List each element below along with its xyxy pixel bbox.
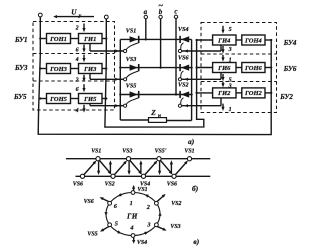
block ГИ1 xyxy=(79,34,103,44)
svg-text:VS6: VS6 xyxy=(73,182,83,188)
pin number 1 with arrow (right chain) xyxy=(221,104,231,113)
block ГИ4 xyxy=(213,35,236,45)
pulse arrow down xyxy=(128,161,131,175)
pin number 2 with arrow (left chain) xyxy=(75,24,86,33)
label VS5 xyxy=(126,84,137,90)
wire ГИ4 output to right GI bus xyxy=(197,39,213,41)
svg-text:БУ2: БУ2 xyxy=(279,93,293,101)
label VS3 xyxy=(126,57,137,63)
label VS3 (ring output) xyxy=(170,224,180,230)
svg-text:БУ1: БУ1 xyxy=(14,36,28,44)
ring position number 1 xyxy=(130,200,133,207)
svg-text:VS1: VS1 xyxy=(137,187,147,193)
label VS4 (ring output) xyxy=(137,240,147,246)
svg-text:ГИ: ГИ xyxy=(126,213,138,221)
pin number 6 with arrow (left chain) xyxy=(76,84,86,93)
svg-text:н: н xyxy=(158,113,161,119)
pin number 3 with arrow (right chain) xyxy=(221,82,231,90)
thyristor VS1 xyxy=(130,36,139,43)
svg-text:3: 3 xyxy=(228,47,232,53)
wire phase c down to row 3 xyxy=(175,19,177,95)
wire row 1 horizontal xyxy=(120,38,191,40)
wire ГИ3 output to sync bus xyxy=(102,68,106,70)
pulse transfer arrow VS4 to VS5 xyxy=(145,161,157,175)
pulse arrow down xyxy=(97,161,100,175)
svg-text:VS1: VS1 xyxy=(184,149,194,155)
output arrow VS5 from ring position 5 xyxy=(100,226,109,231)
svg-text:5: 5 xyxy=(229,27,232,33)
pin number 2 with arrow (left chain) xyxy=(75,75,86,84)
wire ГИ1 output to sync bus xyxy=(102,38,106,40)
block ГИ5 xyxy=(79,94,103,104)
svg-text:1: 1 xyxy=(229,57,232,63)
wire ГОН6 to ГИ6 xyxy=(236,67,242,69)
svg-text:ГОН4: ГОН4 xyxy=(244,37,263,44)
wire U_y bus to ГОН5 input xyxy=(40,98,46,100)
svg-text:2: 2 xyxy=(146,204,150,211)
label VS2 bottom xyxy=(105,182,115,188)
pulse transfer arrow VS3 to VS4 xyxy=(130,160,142,174)
pulse diagram bottom rail xyxy=(76,175,211,177)
svg-text:ГИ5: ГИ5 xyxy=(83,96,97,103)
svg-text:5: 5 xyxy=(229,77,232,83)
svg-text:VS6: VS6 xyxy=(178,55,189,61)
wire ГОН5 to ГИ5 xyxy=(71,98,79,100)
pin number 1 with arrow (right chain) xyxy=(221,55,231,63)
wire U_y bus to ГОН1 input xyxy=(40,38,46,40)
terminal phase c xyxy=(174,8,177,19)
pin number 5 with arrow (right chain) xyxy=(221,74,231,83)
wire ГИ2 output to right GI bus xyxy=(197,92,213,94)
pulse arrow up xyxy=(170,160,173,174)
label VS6 (ring output) xyxy=(84,199,94,205)
label VS6 xyxy=(178,55,189,61)
ring rotation arrowhead xyxy=(144,232,148,235)
pin number 4 with arrow (left chain) xyxy=(75,105,86,114)
svg-text:6: 6 xyxy=(76,87,79,93)
label VS2 xyxy=(178,82,189,88)
svg-text:2: 2 xyxy=(75,26,79,32)
node dots right anode bus xyxy=(190,66,192,95)
svg-text:VS1: VS1 xyxy=(126,29,137,35)
svg-text:VS1: VS1 xyxy=(91,149,101,155)
svg-text:1: 1 xyxy=(229,107,232,113)
output arrow VS4 from ring position 4 xyxy=(132,238,135,244)
node VS1 (top rail) xyxy=(187,157,191,161)
pulse transfer arrow VS5 to VS6 xyxy=(160,160,172,174)
label БУ6 xyxy=(283,65,297,73)
ring rotation arrowhead xyxy=(117,230,121,233)
gate lead VS5 (pulse transformer coupling) xyxy=(124,98,139,107)
pulse diagram top rail xyxy=(66,158,210,160)
svg-text:БУ3: БУ3 xyxy=(14,64,28,72)
label v) xyxy=(193,237,199,246)
ring node 6 xyxy=(108,201,112,205)
svg-text:ГИ3: ГИ3 xyxy=(83,66,97,73)
svg-text:5: 5 xyxy=(115,221,118,228)
wire row 2 horizontal xyxy=(120,67,191,69)
wire right bus to ГОН6 input xyxy=(265,67,271,69)
node dots U_y bus at GON1,GON3,GON5 inputs xyxy=(39,37,41,99)
svg-text:VS2: VS2 xyxy=(178,82,189,88)
block ГИ2 xyxy=(213,88,236,98)
svg-text:4: 4 xyxy=(75,57,79,63)
svg-text:3: 3 xyxy=(228,84,232,90)
wire ГОН2 to ГИ2 xyxy=(236,92,242,94)
wire phase a down to row 1 xyxy=(145,19,147,40)
label VS6 bottom xyxy=(73,182,83,188)
wire right bus to ГОН4 input xyxy=(265,39,271,41)
svg-text:6: 6 xyxy=(76,48,79,54)
pulse transfer arrow VS2 to VS3 xyxy=(114,161,126,175)
svg-text:VS5: VS5 xyxy=(126,84,137,90)
terminal U_y left xyxy=(38,13,42,17)
label VS6 bottom xyxy=(167,182,177,188)
thyristor VS6 xyxy=(180,64,189,71)
svg-text:VS4: VS4 xyxy=(178,27,189,33)
node dot phase c row 3 xyxy=(175,93,177,95)
svg-text:4: 4 xyxy=(129,224,133,231)
node VS1 (top rail) xyxy=(96,157,100,161)
ring node 3 xyxy=(154,223,158,227)
ring node 4 xyxy=(131,234,135,238)
gate lead VS3 (pulse transformer coupling) xyxy=(124,71,139,81)
wire gate drive to VS3 xyxy=(90,74,123,81)
control units BU1,BU3,BU5 dashed enclosure xyxy=(33,22,115,111)
node dots right GI bus at GI4,GI6,GI2 outputs xyxy=(195,39,197,94)
svg-text:ГОН6: ГОН6 xyxy=(244,65,263,72)
block ГОН1 xyxy=(47,34,71,44)
node VS3 (top rail) xyxy=(126,157,130,161)
svg-text:VS3: VS3 xyxy=(126,57,137,63)
terminal phase b xyxy=(158,0,163,19)
pulse arrow down xyxy=(158,161,161,175)
terminal sync input xyxy=(104,15,108,19)
node dots left anode bus xyxy=(119,66,121,95)
wire gate drive to VS1 xyxy=(90,44,123,53)
pin number 4 with arrow (left chain) xyxy=(75,55,86,63)
block ГОН6 xyxy=(242,63,265,73)
wire ГОН1 to ГИ1 xyxy=(71,38,79,40)
svg-text:VS3: VS3 xyxy=(170,224,180,230)
label b) xyxy=(192,184,198,193)
svg-text:БУ6: БУ6 xyxy=(283,65,297,73)
wire left anode bus down to load xyxy=(120,39,148,120)
block ГИ3 xyxy=(79,64,103,74)
wire gate drive to VS6 xyxy=(182,73,221,81)
svg-text:1: 1 xyxy=(130,200,133,207)
ring node 1 xyxy=(131,191,135,195)
node dot phase b row 2 xyxy=(159,66,161,68)
label VS1 top xyxy=(184,149,194,155)
svg-text:VS5: VS5 xyxy=(87,232,97,238)
wire U_y bus left vertical + bottom run to right box xyxy=(38,17,271,135)
svg-text:4: 4 xyxy=(75,108,79,114)
svg-text:б): б) xyxy=(192,184,198,193)
svg-text:ГИ4: ГИ4 xyxy=(217,37,231,44)
label VS1 top xyxy=(91,149,101,155)
svg-text:Z: Z xyxy=(150,108,156,117)
svg-text:VS2: VS2 xyxy=(105,182,115,188)
ring position number 2 xyxy=(146,204,150,211)
svg-text:c: c xyxy=(174,8,177,16)
arrow U_y pointing left xyxy=(53,15,94,18)
pulse transfer arrow VS6 to VS1 xyxy=(84,161,96,175)
ring node 2 xyxy=(154,201,158,205)
ring position number 4 xyxy=(129,224,133,231)
pulse arrow up xyxy=(139,160,142,174)
block ГИ6 xyxy=(213,63,236,73)
label БУ4 xyxy=(283,39,297,47)
svg-text:а): а) xyxy=(188,137,194,146)
svg-text:у: у xyxy=(78,13,82,19)
wire right anode bus down to load xyxy=(167,39,192,120)
thyristor VS3 xyxy=(130,64,139,71)
ring position number 3 xyxy=(146,221,150,228)
svg-text:ГИ6: ГИ6 xyxy=(217,65,231,72)
load Z_n xyxy=(149,108,167,122)
svg-text:VS2: VS2 xyxy=(171,201,181,207)
label U_y xyxy=(71,9,82,19)
pin number 6 with arrow (left chain) xyxy=(76,45,86,54)
wire ГИ5 output to sync bus xyxy=(102,98,106,100)
block ГОН3 xyxy=(47,64,71,74)
svg-text:БУ5: БУ5 xyxy=(13,93,27,101)
label БУ1 xyxy=(14,36,28,44)
label VS5 (ring output) xyxy=(87,232,97,238)
ring rotation arrowhead xyxy=(158,212,161,216)
svg-text:ГИ1: ГИ1 xyxy=(83,36,96,43)
node dots right bus at GON4,GON6,GON2 inputs xyxy=(270,39,272,94)
node VS4 (bottom rail) xyxy=(141,174,145,178)
label GI center xyxy=(126,213,138,221)
wire ГОН4 to ГИ4 xyxy=(236,39,242,41)
label VS2 (ring output) xyxy=(171,201,181,207)
output arrow VS6 from ring position 6 xyxy=(100,197,110,202)
label VS3 top xyxy=(122,149,132,155)
node VS6 (bottom rail) xyxy=(172,174,176,178)
wire sync bus vertical + bottom run to right GI bus xyxy=(105,19,204,127)
label VS1 xyxy=(126,29,137,35)
svg-text:VS5': VS5' xyxy=(155,149,167,155)
ring rotation arrowhead xyxy=(145,195,149,198)
wire gate drive to VS5 xyxy=(90,104,123,108)
ring node 5 xyxy=(108,223,112,227)
svg-text:ГОН2: ГОН2 xyxy=(244,90,263,97)
pin number 3 with arrow (right chain) xyxy=(221,46,231,54)
node VS6 (bottom rail) xyxy=(80,174,84,178)
thyristor VS2 xyxy=(180,91,189,98)
svg-text:U: U xyxy=(71,9,77,17)
block ГОН4 xyxy=(242,35,265,45)
svg-text:ГИ2: ГИ2 xyxy=(217,90,231,97)
pin number 5 with arrow (right chain) xyxy=(221,26,231,34)
svg-text:VS4: VS4 xyxy=(137,240,147,246)
block ГОН2 xyxy=(242,88,265,98)
svg-text:~: ~ xyxy=(158,0,163,10)
wire ГОН3 to ГИ3 xyxy=(71,68,79,70)
wire right bus to ГОН2 input xyxy=(265,92,271,94)
svg-text:ГОН3: ГОН3 xyxy=(49,66,68,73)
pulse arrow up xyxy=(109,160,112,174)
svg-text:3: 3 xyxy=(146,221,150,228)
output arrow VS1 from ring position 1 xyxy=(132,185,135,191)
svg-text:VS6: VS6 xyxy=(167,182,177,188)
svg-text:VS3: VS3 xyxy=(122,149,132,155)
block ГОН5 xyxy=(47,94,71,104)
label VS4 xyxy=(178,27,189,33)
svg-text:VS6: VS6 xyxy=(84,199,94,205)
svg-text:ГОН5: ГОН5 xyxy=(49,96,68,103)
label a) xyxy=(188,137,194,146)
svg-text:в): в) xyxy=(193,237,199,246)
ring rotation arrowhead xyxy=(104,212,107,216)
pulse transfer arrow VS1 to VS2 xyxy=(99,160,111,174)
label БУ5 xyxy=(13,93,27,101)
label БУ2 xyxy=(279,93,293,101)
pulse transfer arrow VS6 to VS1 repeat xyxy=(175,161,187,175)
wire gate drive to VS2 xyxy=(182,98,221,107)
wire ГИ6 output to right GI bus xyxy=(197,67,213,69)
svg-text:БУ4: БУ4 xyxy=(283,39,297,47)
svg-text:a: a xyxy=(144,8,148,16)
terminal phase a xyxy=(144,8,148,19)
gate lead VS4 (pulse transformer coupling) xyxy=(178,43,183,53)
ring position number 5 xyxy=(115,221,118,228)
output arrow VS2 from ring position 2 xyxy=(156,194,165,202)
wire gate drive to VS4 xyxy=(182,45,221,53)
gate lead VS6 (pulse transformer coupling) xyxy=(178,71,183,81)
svg-text:2: 2 xyxy=(75,78,79,84)
label VS5' top xyxy=(155,149,167,155)
label VS1 (ring output) xyxy=(137,187,147,193)
node dots sync bus at GI1,GI3,GI5 outputs xyxy=(105,37,107,99)
gate lead VS2 (pulse transformer coupling) xyxy=(178,98,183,107)
ring rotation arrowhead xyxy=(118,193,122,196)
label VS4 bottom xyxy=(140,182,150,188)
label БУ3 xyxy=(14,64,28,72)
ring position number 6 xyxy=(114,203,118,210)
wire row 3 horizontal xyxy=(120,94,191,96)
wire U_y bus to ГОН3 input xyxy=(40,68,46,70)
ring distributor GI circle xyxy=(106,193,160,236)
output arrow VS3 from ring position 3 xyxy=(157,226,167,230)
control units BU4,BU6,BU2 dashed enclosure xyxy=(201,23,277,113)
node dot phase a row 1 xyxy=(145,38,147,40)
thyristor VS5 xyxy=(130,91,139,98)
node VS2 (bottom rail) xyxy=(111,174,115,178)
thyristor VS4 xyxy=(180,36,189,43)
node VS5prime (top rail) xyxy=(157,157,161,161)
svg-text:ГОН1: ГОН1 xyxy=(49,36,67,43)
wire phase b down to row 2 xyxy=(160,19,162,68)
gate lead VS1 (pulse transformer coupling) xyxy=(124,43,139,53)
